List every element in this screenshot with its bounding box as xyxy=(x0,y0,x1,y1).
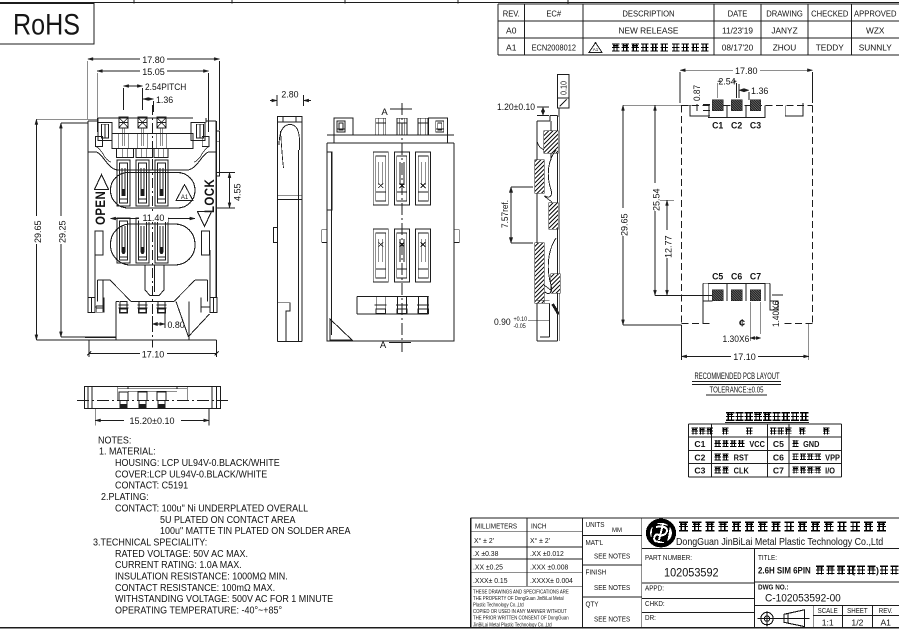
svg-text:ECN2008012: ECN2008012 xyxy=(532,43,576,53)
svg-text:1.36: 1.36 xyxy=(156,95,173,105)
svg-text:CONTACT: 100u" Ni UNDERPLAT: CONTACT: 100u" Ni UNDERPLATED OVERALL xyxy=(115,503,309,515)
svg-text:17.80: 17.80 xyxy=(142,55,165,65)
svg-text:CHKD:: CHKD: xyxy=(645,601,665,608)
svg-text:0.10: 0.10 xyxy=(559,81,568,95)
view1 bottom center tab xyxy=(145,265,164,296)
svg-text:GND: GND xyxy=(803,440,820,449)
svg-text:08/17'20: 08/17'20 xyxy=(722,43,754,53)
svg-text:1/2: 1/2 xyxy=(851,618,863,628)
svg-text:THESE DRAWINGS AND SPECIFICATI: THESE DRAWINGS AND SPECIFICATIONS ARE xyxy=(473,589,569,596)
part number cell xyxy=(642,547,899,549)
sheet top border tick marks xyxy=(133,0,135,4)
pcb dimension 1.40X6 (rotated) xyxy=(772,294,783,296)
section flatness callout 0.10 xyxy=(558,75,570,109)
view1 cover wavy lower edge xyxy=(88,152,216,170)
svg-text:JANYZ: JANYZ xyxy=(771,26,797,36)
view1 cover lower tabs xyxy=(117,148,134,157)
view2 internal lines xyxy=(278,194,303,196)
svg-text:TITLE:: TITLE: xyxy=(758,555,777,562)
sim table grid xyxy=(688,423,841,425)
svg-text:17.10: 17.10 xyxy=(142,349,165,359)
svg-text:1.20±0.10: 1.20±0.10 xyxy=(497,102,535,112)
A1 change-mark triangle xyxy=(589,43,602,53)
svg-text:SCALE: SCALE xyxy=(818,608,839,615)
svg-text:C3: C3 xyxy=(750,120,761,130)
svg-text:1:1: 1:1 xyxy=(822,618,834,628)
view4 dimension 15.20±0.10 xyxy=(94,408,96,425)
svg-text:REV.: REV. xyxy=(879,608,893,615)
svg-text:RATED VOLTAGE: 50V AC MAX.: RATED VOLTAGE: 50V AC MAX. xyxy=(115,548,248,560)
svg-text:11.40: 11.40 xyxy=(143,213,165,223)
pcb bottom recess outline xyxy=(703,283,770,301)
svg-text:LOCK: LOCK xyxy=(201,179,217,213)
view4 pins xyxy=(119,392,128,400)
svg-text:100u" MATTE TIN PLATED ON: 100u" MATTE TIN PLATED ON SOLDER AREA xyxy=(160,526,351,538)
view3 top pins xyxy=(376,118,386,135)
svg-text:15.20±0.10: 15.20±0.10 xyxy=(129,416,174,426)
svg-text:I/O: I/O xyxy=(825,466,835,475)
svg-text:SHEET: SHEET xyxy=(847,608,867,615)
pcb dimension 2.54 xyxy=(718,80,737,82)
svg-text:2.6H SIM 6PIN: 2.6H SIM 6PIN xyxy=(758,565,811,576)
svg-text:WITHSTANDING VOLTAGE: 500V: WITHSTANDING VOLTAGE: 500V AC FOR 1 MINU… xyxy=(115,594,333,606)
view3 side edge steps xyxy=(326,143,328,341)
title block outer frame xyxy=(471,517,899,519)
svg-text:A0: A0 xyxy=(506,26,517,36)
svg-text:APPROVED: APPROVED xyxy=(854,9,897,18)
view1 29.25 vertical dimension xyxy=(61,122,88,124)
view1 dimension 1.36 xyxy=(143,98,154,100)
view1 top pins xyxy=(119,117,128,128)
dwg no cell xyxy=(754,581,899,583)
view2 top cap xyxy=(278,117,303,123)
svg-text:SEE NOTES: SEE NOTES xyxy=(594,616,631,623)
view2 left tab xyxy=(274,228,278,243)
section hatched regions xyxy=(544,131,558,153)
svg-text:CHECKED: CHECKED xyxy=(811,9,849,18)
pcb left dimension 25.54 xyxy=(654,105,656,295)
svg-text:CURRENT RATING: 1.0A MAX.: CURRENT RATING: 1.0A MAX. xyxy=(115,560,242,572)
view3 bottom recess and pins xyxy=(357,296,429,314)
revision table grid xyxy=(498,3,899,5)
projection symbol xyxy=(758,610,810,627)
svg-text:C2: C2 xyxy=(731,120,742,130)
view1 dimension 2.54PITCH xyxy=(124,85,143,87)
svg-text:THE PROPERTY OF DongGuan JinBi: THE PROPERTY OF DongGuan JinBiLai Metal xyxy=(473,596,564,603)
view1 right latch xyxy=(191,123,205,141)
svg-text:DESCRIPTION: DESCRIPTION xyxy=(622,9,674,18)
svg-text:.XX ±0.012: .XX ±0.012 xyxy=(530,549,564,558)
pcb body dashed outline xyxy=(682,104,813,106)
view1 upper contact slots xyxy=(117,160,130,206)
svg-text:RECOMMENDED PCB LAYOUT: RECOMMENDED PCB LAYOUT xyxy=(695,371,780,381)
pcb dimension 17.80 xyxy=(680,69,813,71)
view1 29.65 vertical dimension xyxy=(36,118,98,120)
view4 outline xyxy=(85,387,221,409)
svg-text:1. MATERIAL:: 1. MATERIAL: xyxy=(99,446,156,458)
view1 warning triangle A1 xyxy=(176,185,193,201)
svg-text:SEE NOTES: SEE NOTES xyxy=(594,585,631,592)
svg-text:2.54PITCH: 2.54PITCH xyxy=(145,82,186,93)
svg-text:EC#: EC# xyxy=(546,9,561,18)
view1 centerline (vertical dashed) xyxy=(152,105,154,160)
svg-text:RoHS: RoHS xyxy=(13,9,80,42)
svg-text:C1: C1 xyxy=(694,439,705,449)
svg-text:REV.: REV. xyxy=(503,9,520,18)
view1 upper stadium cutout xyxy=(111,173,196,209)
svg-text:A1: A1 xyxy=(506,43,517,53)
svg-text:MILLIMETERS: MILLIMETERS xyxy=(475,523,518,530)
A1 chinese description (change big window glue) xyxy=(612,44,668,52)
svg-text:¢: ¢ xyxy=(739,318,745,330)
section dimension 7.57ref xyxy=(511,186,533,188)
svg-text:OPEN: OPEN xyxy=(92,191,108,225)
view1 right slider bump xyxy=(216,131,219,176)
section bottom foot xyxy=(549,303,551,337)
svg-text:(: ( xyxy=(852,566,855,576)
svg-text:UNITS: UNITS xyxy=(586,522,605,529)
svg-text:JinBiLai Metal Plastic Technol: JinBiLai Metal Plastic Technology Co.,Lt… xyxy=(473,622,552,629)
svg-text:C7: C7 xyxy=(750,271,761,281)
view1 body outline xyxy=(98,117,193,119)
svg-text:17.80: 17.80 xyxy=(735,66,758,76)
svg-text:A1: A1 xyxy=(880,618,891,628)
svg-text:17.10: 17.10 xyxy=(733,352,756,362)
svg-text:C7: C7 xyxy=(773,466,784,476)
pcb top pads C1 C2 C3 xyxy=(708,105,727,117)
svg-text:.XX ±0.25: .XX ±0.25 xyxy=(473,562,503,571)
view3 lower contact slots xyxy=(373,229,388,282)
view1 dimension 17.80 xyxy=(88,58,220,60)
svg-text:.XXXX± 0.004: .XXXX± 0.004 xyxy=(530,575,573,584)
sheet top border xyxy=(0,2,899,4)
pcb dimension 0.87 (rotated) xyxy=(692,85,702,101)
svg-text:.XXX± 0.15: .XXX± 0.15 xyxy=(473,575,508,584)
svg-text:1.36: 1.36 xyxy=(751,86,768,96)
svg-text:APPD:: APPD: xyxy=(645,585,664,592)
pcb dimension 1.30X6 xyxy=(749,302,751,341)
svg-text:0.80: 0.80 xyxy=(168,320,185,330)
svg-text:1.30X6: 1.30X6 xyxy=(723,334,750,344)
svg-text:COPIED OR USED IN ANY MANNER W: COPIED OR USED IN ANY MANNER WITHOUT xyxy=(473,609,567,616)
svg-text:7.57ref.: 7.57ref. xyxy=(500,200,510,228)
view1 bottom corner details xyxy=(96,306,103,313)
svg-text:2.80: 2.80 xyxy=(281,89,298,99)
svg-text:MAT'L: MAT'L xyxy=(586,540,604,547)
tolerance table grid xyxy=(471,531,583,533)
svg-text:MM: MM xyxy=(612,527,622,534)
svg-text:C5: C5 xyxy=(712,271,723,281)
svg-text:FINISH: FINISH xyxy=(586,569,607,576)
view1 dimension 17.10 xyxy=(88,340,90,357)
view1 11.40 label redraw xyxy=(139,212,168,223)
svg-text:102053592: 102053592 xyxy=(664,567,719,579)
view1 bottom edge xyxy=(89,339,217,341)
view1 right side slot xyxy=(202,231,210,255)
svg-text:PART NUMBER:: PART NUMBER: xyxy=(645,555,692,562)
svg-text:DongGuan JinBiLai Metal Pla: DongGuan JinBiLai Metal Plastic Technolo… xyxy=(676,536,883,548)
view3 top edge xyxy=(327,134,454,136)
svg-text:HOUSING: LCP UL94V-0.BLACK/W: HOUSING: LCP UL94V-0.BLACK/WHITE xyxy=(115,458,280,470)
view3 upper contact slots xyxy=(373,152,388,205)
svg-text:SUNNLY: SUNNLY xyxy=(859,43,893,53)
view1 lock arrow triangle xyxy=(198,212,212,227)
view4 left cap xyxy=(91,387,93,409)
section contact springs xyxy=(545,150,556,197)
svg-text:3.TECHNICAL SPECIALITY:: 3.TECHNICAL SPECIALITY: xyxy=(93,537,207,549)
svg-text:12.77: 12.77 xyxy=(663,235,673,258)
svg-text:25.54: 25.54 xyxy=(651,188,661,211)
view1 bottom solder pins xyxy=(120,302,127,313)
view1 dimension 4.55 xyxy=(216,172,235,174)
svg-text:29.65: 29.65 xyxy=(619,213,629,236)
view1 open arrow triangle xyxy=(95,175,109,190)
svg-text:C5: C5 xyxy=(773,439,784,449)
svg-text:CONTACT RESISTANCE: 100mΩ M: CONTACT RESISTANCE: 100mΩ MAX. xyxy=(115,582,275,594)
pcb left dimension 12.77 xyxy=(666,200,668,295)
svg-text:11/23'19: 11/23'19 xyxy=(722,26,753,36)
svg-text:+0.10: +0.10 xyxy=(514,317,528,323)
view3 body outline xyxy=(327,143,454,341)
svg-text:DRAWING: DRAWING xyxy=(766,9,803,18)
svg-text:WZX: WZX xyxy=(866,26,885,36)
view2 dimension 2.80 xyxy=(270,100,277,102)
svg-text:A: A xyxy=(380,340,387,351)
svg-text:COVER:LCP UL94V-0.BLACK/WHITE: COVER:LCP UL94V-0.BLACK/WHITE xyxy=(115,469,267,481)
svg-text:15.05: 15.05 xyxy=(142,67,165,77)
svg-text:2.54: 2.54 xyxy=(718,76,735,86)
svg-text:DATE: DATE xyxy=(728,9,748,18)
company logo xyxy=(648,521,674,546)
view1 left side slot xyxy=(95,231,103,255)
pcb dimension 1.36 xyxy=(739,89,749,91)
view4 dashed centerline xyxy=(77,399,228,401)
svg-text:ZHOU: ZHOU xyxy=(773,43,797,53)
view3 bottom-left chamfer triangle xyxy=(330,319,352,340)
svg-text:CLK: CLK xyxy=(734,466,750,475)
pcb dimension 17.10 xyxy=(681,325,683,360)
pcb top castellation (solid) xyxy=(690,105,710,116)
svg-text:C1: C1 xyxy=(712,120,723,130)
svg-text:29.25: 29.25 xyxy=(57,220,67,243)
svg-text:CONTACT: C5191: CONTACT: C5191 xyxy=(115,480,188,492)
sim table header cells xyxy=(692,428,713,435)
view1 dimension 15.05 xyxy=(97,70,208,72)
svg-text:DWG NO.:: DWG NO.: xyxy=(758,584,789,591)
view4 right cap xyxy=(211,387,213,409)
svg-text:OPERATING TEMPERATURE: -40°~: OPERATING TEMPERATURE: -40°~+85° xyxy=(115,605,282,617)
middle column cells xyxy=(582,535,641,537)
RoHS logo box xyxy=(0,4,94,45)
pcb left dimension 29.65 xyxy=(623,104,697,106)
view2 cover dome xyxy=(279,125,300,151)
svg-text:TOLERANCE:±0.05: TOLERANCE:±0.05 xyxy=(710,385,764,395)
svg-text:C2: C2 xyxy=(694,452,705,462)
svg-text:1.40X6: 1.40X6 xyxy=(771,301,781,327)
company chinese name xyxy=(679,522,886,532)
view1 left foot xyxy=(88,298,95,313)
svg-text:29.65: 29.65 xyxy=(33,220,43,243)
view1 OPEN text (rotated) xyxy=(92,191,108,225)
view3 top-right latch block xyxy=(429,118,454,143)
view1 11.40 label final xyxy=(139,212,168,223)
view4 cover steps xyxy=(117,387,119,400)
view1 lower contact slots xyxy=(117,218,130,263)
svg-text:A1: A1 xyxy=(181,195,189,201)
svg-text:0.90: 0.90 xyxy=(494,317,511,327)
sheet bottom border xyxy=(0,627,899,629)
svg-text:QTY: QTY xyxy=(586,601,599,608)
svg-text:.XXX ±0.008: .XXX ±0.008 xyxy=(530,562,568,571)
svg-text:X° ± 2': X° ± 2' xyxy=(474,536,495,545)
view1 LOCK text (rotated) xyxy=(201,179,217,213)
svg-text:Plastic Technology Co.,Ltd: Plastic Technology Co.,Ltd xyxy=(473,602,524,609)
view3 top-left latch block xyxy=(327,118,353,143)
projection symbol cell xyxy=(754,604,899,606)
scale sheet rev cells xyxy=(812,605,814,627)
svg-text:C-102053592-00: C-102053592-00 xyxy=(765,592,841,604)
svg-text:-0.05: -0.05 xyxy=(514,324,526,330)
svg-text:RST: RST xyxy=(734,453,749,462)
view1 bottom cavity xyxy=(98,279,111,281)
svg-text:2.PLATING:: 2.PLATING: xyxy=(101,492,149,504)
svg-text:C3: C3 xyxy=(694,466,705,476)
section body outline xyxy=(537,116,558,342)
svg-text:.X ±0.38: .X ±0.38 xyxy=(473,549,498,558)
svg-text:SEE NOTES: SEE NOTES xyxy=(594,553,631,560)
svg-text:INSULATION RESISTANCE: 1000M: INSULATION RESISTANCE: 1000MΩ MIN. xyxy=(115,571,288,583)
view2 bottom notch xyxy=(278,303,291,342)
svg-text:5U PLATED ON CONTACT AREA: 5U PLATED ON CONTACT AREA xyxy=(160,514,296,526)
svg-text:NEW RELEASE: NEW RELEASE xyxy=(619,26,679,36)
svg-text:VPP: VPP xyxy=(825,453,840,462)
view1 dimension 11.40 xyxy=(111,218,141,220)
svg-text:INCH: INCH xyxy=(531,523,547,530)
view1 dimension 0.80 xyxy=(152,316,154,332)
title cell xyxy=(753,548,755,627)
view1 right foot xyxy=(210,298,217,313)
sim table title (SIM card pin definition, chinese) xyxy=(726,412,808,421)
view1 cover band xyxy=(112,133,193,148)
view3 centerline xyxy=(401,103,403,352)
svg-text:THE PRIOR WRITTEN CONSENT OF D: THE PRIOR WRITTEN CONSENT OF DongGuan xyxy=(473,615,569,622)
svg-text:X° ± 2': X° ± 2' xyxy=(530,536,551,545)
view2 body outline xyxy=(278,122,303,341)
view1 left latch xyxy=(98,123,112,141)
svg-text:A1: A1 xyxy=(593,47,599,52)
view1 lower stadium cutout xyxy=(111,224,196,265)
svg-text:): ) xyxy=(876,566,879,576)
svg-text:NOTES:: NOTES: xyxy=(98,435,131,447)
left APPD/CHKD/DR rows xyxy=(642,582,755,584)
svg-text:A: A xyxy=(381,107,388,118)
svg-text:0.87: 0.87 xyxy=(692,85,702,101)
svg-text:4.55: 4.55 xyxy=(232,183,242,201)
svg-text:DR:: DR: xyxy=(645,615,656,622)
svg-text:C6: C6 xyxy=(731,271,742,281)
svg-text:C6: C6 xyxy=(773,452,784,462)
svg-text:VCC: VCC xyxy=(749,440,765,449)
svg-text:TEDDY: TEDDY xyxy=(816,43,845,53)
